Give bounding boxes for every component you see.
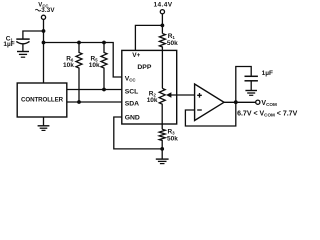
svg-text:R3: R3	[168, 128, 176, 135]
wire V+ branch to DPP	[135, 25, 162, 50]
node ground junction	[160, 147, 164, 151]
ground (C1)	[17, 51, 29, 53]
svg-text:SDA: SDA	[125, 101, 139, 108]
ground (controller)	[38, 125, 50, 127]
node R6 top	[77, 41, 81, 45]
svg-text:CONTROLLER: CONTROLLER	[21, 96, 64, 103]
label ~3.3V	[35, 9, 40, 11]
wire op-amp minus feedback	[185, 102, 235, 126]
wire SDA	[67, 101, 122, 103]
capacitor C1	[16, 38, 29, 40]
node R5-SCL junction	[102, 88, 106, 92]
svg-text:V+: V+	[132, 52, 140, 59]
svg-text:DPP: DPP	[137, 64, 151, 71]
svg-text:GND: GND	[125, 114, 140, 121]
resistor R5	[101, 43, 107, 90]
node C1 branch junction	[42, 29, 46, 33]
svg-text:SCL: SCL	[125, 88, 139, 95]
controller box	[17, 83, 67, 117]
svg-text:1µF: 1µF	[262, 70, 273, 77]
wire ground stem	[161, 149, 163, 159]
wire C1 branch	[23, 31, 44, 39]
capacitor C2 1uF	[245, 75, 258, 77]
op-amp U1	[195, 84, 224, 121]
svg-text:VCC: VCC	[125, 75, 137, 82]
wire output cap branch	[236, 67, 251, 103]
svg-text:14.4V: 14.4V	[154, 2, 173, 9]
svg-text:1µF: 1µF	[3, 41, 14, 48]
node output junction	[234, 100, 238, 104]
svg-text:VCOM: VCOM	[261, 100, 277, 107]
terminal 14.4V	[160, 10, 164, 14]
wire Vcc rail to DPP VCC pin	[44, 43, 122, 78]
DPP box	[122, 50, 177, 124]
resistor R1	[159, 34, 165, 89]
terminal VCC ~3.3V	[41, 15, 45, 19]
wire controller ground stem	[43, 117, 45, 126]
resistor R3	[159, 129, 165, 149]
svg-text:10k: 10k	[63, 62, 74, 69]
potentiometer R2	[159, 88, 165, 129]
svg-text:6.7V < VCOM < 7.7V: 6.7V < VCOM < 7.7V	[237, 111, 297, 118]
svg-text:10k: 10k	[147, 97, 158, 104]
svg-text:R1: R1	[168, 33, 176, 40]
node R5 top	[102, 41, 106, 45]
svg-text:50k: 50k	[167, 136, 178, 143]
wire DPP GND pin to ground node	[114, 117, 162, 149]
wiper arrow R2	[171, 94, 195, 96]
svg-text:50k: 50k	[167, 40, 178, 47]
node R6-SDA junction	[77, 100, 81, 104]
svg-text:10k: 10k	[89, 62, 100, 69]
node Vcc rail junction	[42, 41, 46, 45]
wire 14.4V down	[161, 14, 163, 34]
wire SCL	[67, 89, 122, 91]
ground (output cap)	[245, 90, 257, 92]
wire Vcc vertical down to controller	[43, 20, 45, 83]
ground (R3 / DPP)	[156, 158, 169, 160]
svg-text:3.3V: 3.3V	[41, 7, 55, 14]
terminal VCOM	[256, 100, 260, 104]
resistor R6	[76, 43, 82, 103]
node V+ branch junction	[161, 24, 165, 28]
wire op-amp output	[224, 101, 256, 103]
